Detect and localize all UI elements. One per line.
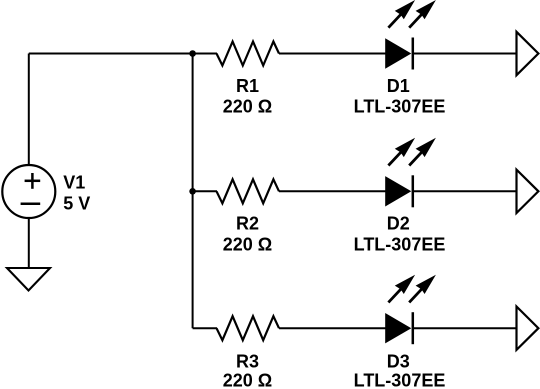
output arrow row 3 [517,307,539,350]
resistor R3 [217,316,280,340]
wire row 2 middle [279,190,386,192]
wire top-left horizontal [29,53,193,55]
svg-text:R2: R2 [236,214,259,234]
LED D2 [385,138,436,208]
svg-text:220 Ω: 220 Ω [223,235,272,255]
LED D1 [385,0,436,70]
wire row 3 right [414,327,517,329]
svg-text:R3: R3 [236,352,259,372]
wire row 2 right [414,190,517,192]
wire row 3 left [193,327,217,329]
svg-text:LTL-307EE: LTL-307EE [354,97,446,117]
svg-text:R1: R1 [236,76,259,96]
node junction row 2 [189,188,196,195]
svg-text:220 Ω: 220 Ω [223,97,272,117]
wire row 1 right [414,53,517,55]
svg-text:LTL-307EE: LTL-307EE [354,370,446,389]
wire row 1 left [193,53,217,55]
wire left vertical to source [28,54,30,166]
wire row 3 middle [279,327,386,329]
output arrow row 1 [517,32,539,75]
svg-text:D1: D1 [387,76,410,96]
node junction row 1 [189,50,196,57]
LED D3 [385,275,436,345]
resistor R2 [217,179,280,203]
wire row 1 middle [279,53,386,55]
wire vertical bus [192,54,194,329]
svg-text:V1: V1 [63,173,85,193]
wire source to ground [28,218,30,268]
svg-text:LTL-307EE: LTL-307EE [354,235,446,255]
svg-text:D2: D2 [387,214,410,234]
resistor R1 [217,42,280,66]
svg-text:5 V: 5 V [63,194,90,214]
svg-text:D3: D3 [387,352,410,372]
wire row 2 left [193,190,217,192]
svg-text:220 Ω: 220 Ω [223,370,272,389]
output arrow row 2 [517,170,539,213]
voltage source V1 [2,165,55,218]
ground [7,268,50,291]
